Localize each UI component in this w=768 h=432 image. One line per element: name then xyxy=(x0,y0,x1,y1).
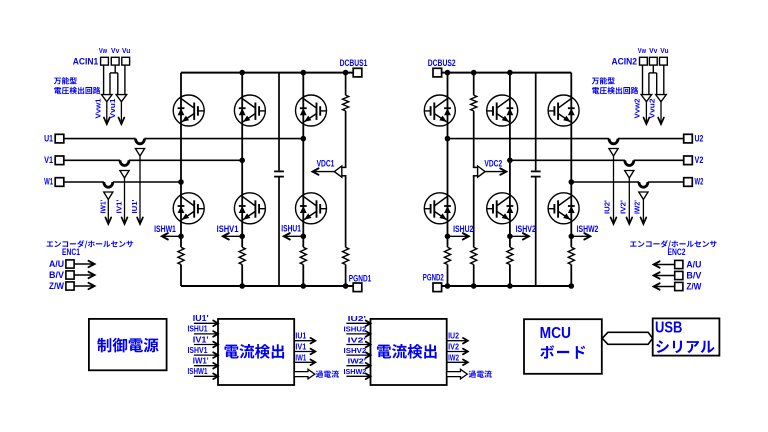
wire capacitor leg 2 bottom xyxy=(535,177,537,286)
transistor Q11 xyxy=(487,193,518,224)
node top bus leg V xyxy=(239,70,245,76)
terminal U2 xyxy=(684,134,693,143)
svg-text:IW2': IW2' xyxy=(348,359,367,366)
node bottom bus 2 leg U xyxy=(445,283,451,289)
tap triangle IU2' xyxy=(609,149,618,157)
node bottom bus 2 leg W corner xyxy=(569,283,575,289)
label current detect 2 xyxy=(377,344,437,359)
wire sense leg 1 xyxy=(345,73,347,168)
wire leg U1 phase xyxy=(302,73,304,248)
wire Vv drop 2 xyxy=(652,65,654,73)
arrow input IV1' xyxy=(194,344,218,346)
current sensor bump W1 xyxy=(104,182,113,187)
svg-text:W2: W2 xyxy=(695,177,704,187)
terminal ENC2 B/V xyxy=(675,271,683,279)
wire Vvu channel left side xyxy=(117,73,119,95)
arrow ISHV1 xyxy=(223,235,242,237)
transistor Q8 xyxy=(487,95,518,126)
arrow Vvw1 xyxy=(106,102,108,124)
node phase W1 junction xyxy=(178,179,184,185)
arrow input ISHW1 xyxy=(194,375,218,377)
svg-text:A/U: A/U xyxy=(49,259,64,269)
arrow ENC1 B/V xyxy=(74,274,94,276)
current sensor bump V2 xyxy=(625,160,634,165)
wire leg V2 xyxy=(509,73,511,248)
svg-text:IW2: IW2 xyxy=(448,353,459,362)
resistor divider bottom R1b xyxy=(344,247,347,264)
label board (katakana) xyxy=(540,345,585,359)
terminal ACIN2 Vv xyxy=(649,57,657,65)
arrow Vvu2 xyxy=(660,102,662,124)
node bottom bus leg V xyxy=(239,283,245,289)
svg-text:ISHV1: ISHV1 xyxy=(217,224,239,234)
wire bottom bus 1 / PGND rail xyxy=(181,285,353,287)
label current detect 1 xyxy=(225,344,285,359)
arrow ENC2 A/U xyxy=(654,264,675,266)
wire capacitor leg bottom xyxy=(278,177,280,286)
svg-text:B/V: B/V xyxy=(49,270,64,280)
arrow IU1' xyxy=(139,156,141,224)
svg-text:IW1': IW1' xyxy=(193,357,209,366)
arrow input IW1' xyxy=(194,365,218,367)
wire leg W1 phase xyxy=(180,73,182,248)
svg-text:IU2': IU2' xyxy=(605,200,612,214)
arrow input ISHW2 xyxy=(346,375,370,377)
connector MCU-USB double arrow xyxy=(602,332,652,344)
node phase W2 junction xyxy=(569,179,575,185)
svg-text:IV1': IV1' xyxy=(117,199,124,213)
arrow VDC2 xyxy=(485,171,506,173)
svg-text:V2: V2 xyxy=(695,155,704,165)
label universal voltage detect circuit 1 line1 xyxy=(54,77,77,84)
block control power supply xyxy=(89,319,167,370)
arrow IW1' xyxy=(107,200,109,225)
wire top DC bus 1 xyxy=(181,72,353,74)
transistor Q2 xyxy=(234,95,265,126)
terminal ENC2 A/U xyxy=(675,260,683,268)
node ISHU2 tap xyxy=(445,234,451,240)
svg-text:DCBUS2: DCBUS2 xyxy=(428,58,456,68)
svg-text:IW2': IW2' xyxy=(634,200,641,214)
svg-text:USB: USB xyxy=(655,319,682,336)
wire leg U2 xyxy=(447,73,449,248)
terminal ACIN1 Vv xyxy=(111,57,119,65)
arrow output IU1 xyxy=(294,340,315,342)
terminal ACIN1 Vw xyxy=(101,57,109,65)
resistor divider bottom R2b xyxy=(472,247,475,264)
node phase V2 junction xyxy=(507,158,513,164)
arrow IV2' xyxy=(628,178,630,224)
label serial (katakana) xyxy=(656,340,714,353)
label universal voltage detect circuit 2 line1 xyxy=(592,77,615,84)
wire phase V2 xyxy=(510,159,625,161)
svg-text:ACIN1: ACIN1 xyxy=(73,56,99,66)
node phase V1 junction xyxy=(239,158,245,164)
tap triangle IW1' xyxy=(104,192,113,200)
block current detect 1 xyxy=(218,319,294,385)
node ISHW2 tap xyxy=(569,234,575,240)
svg-text:IV2': IV2' xyxy=(348,337,367,344)
terminal PGND2 xyxy=(433,283,442,292)
svg-text:ISHV2: ISHV2 xyxy=(344,348,367,355)
tap triangle IW2' xyxy=(639,192,648,200)
tap triangle IV1' xyxy=(120,171,129,179)
arrow input IU2' xyxy=(346,322,370,324)
svg-text:ISHU2: ISHU2 xyxy=(344,327,367,334)
svg-text:IV1': IV1' xyxy=(193,335,209,344)
node bottom bus sense leg xyxy=(343,283,349,289)
wire phase U1 xyxy=(64,138,136,140)
arrow ENC1 A/U xyxy=(74,263,94,265)
svg-text:IU1': IU1' xyxy=(132,199,139,213)
arrow input IV2' xyxy=(346,344,370,346)
tap triangle IV2' xyxy=(625,171,634,179)
svg-text:Vu: Vu xyxy=(660,46,669,55)
wire leg V1 phase xyxy=(241,73,243,248)
arrow IW2' xyxy=(642,200,644,225)
tap triangle IU1' xyxy=(135,149,144,157)
terminal ACIN1 Vu xyxy=(122,57,130,65)
wire Vvu2 channel left side xyxy=(656,73,658,95)
arrow ISHU1 xyxy=(284,235,304,237)
node top bus 2 leg V xyxy=(507,70,513,76)
arrow output IW2 xyxy=(447,361,468,363)
svg-text:VDC2: VDC2 xyxy=(484,158,502,168)
transistor Q7 xyxy=(424,95,455,126)
arrow Vvu1 xyxy=(120,102,122,124)
probe triangle Vvw2 xyxy=(641,95,652,102)
label encoder hall sensor 1 xyxy=(47,240,134,248)
label overcurrent 2 xyxy=(469,370,492,377)
resistor shunt RSW2 xyxy=(570,247,573,264)
transistor Q6 xyxy=(296,193,327,224)
transistor Q1 xyxy=(173,95,204,126)
terminal ENC1 B/V xyxy=(66,271,74,279)
svg-text:U1: U1 xyxy=(44,133,53,143)
capacitor C2 xyxy=(531,170,541,172)
node top bus 2 sense leg xyxy=(471,70,477,76)
node bottom bus leg U xyxy=(301,283,307,289)
svg-text:W1: W1 xyxy=(44,177,53,187)
arrow output IW1 xyxy=(294,361,315,363)
resistor divider top R2a xyxy=(472,95,475,111)
svg-text:ENC2: ENC2 xyxy=(668,247,686,257)
svg-text:Vv: Vv xyxy=(649,46,658,55)
svg-text:Vvu1: Vvu1 xyxy=(110,98,117,118)
svg-text:Vu: Vu xyxy=(122,46,131,55)
capacitor C1 xyxy=(274,170,284,172)
wire Vv branch bar xyxy=(110,72,118,74)
svg-text:DCBUS1: DCBUS1 xyxy=(340,58,368,68)
svg-text:IW1: IW1 xyxy=(295,353,306,362)
svg-text:IW1': IW1' xyxy=(101,199,108,213)
arrow ISHW1 xyxy=(162,235,181,237)
current sensor bump V1 xyxy=(120,160,129,165)
arrow output IV2 xyxy=(447,351,468,353)
terminal DCBUS2 xyxy=(433,68,442,77)
terminal ENC1 A/U xyxy=(66,260,74,268)
wire capacitor leg top xyxy=(278,73,280,171)
probe triangle Vvu1 xyxy=(116,95,127,102)
svg-text:IV2: IV2 xyxy=(448,343,459,352)
svg-text:IV1: IV1 xyxy=(295,343,306,352)
wire Vu drop xyxy=(124,65,126,95)
resistor shunt RSV2 xyxy=(508,247,511,264)
arrow IV1' xyxy=(124,178,126,224)
terminal ACIN2 Vw xyxy=(640,57,648,65)
node ISHV2 tap xyxy=(507,234,513,240)
probe triangle Vvu2 xyxy=(656,95,667,102)
resistor shunt RSU2 xyxy=(446,247,449,264)
svg-text:IV2': IV2' xyxy=(620,200,627,214)
current sensor bump W2 xyxy=(639,182,648,187)
label universal voltage detect circuit 2 line2 xyxy=(592,87,638,94)
label encoder hall sensor 2 xyxy=(630,240,717,248)
transistor Q9 xyxy=(548,95,579,126)
arrow ISHW2 xyxy=(571,235,590,237)
svg-text:ISHW1: ISHW1 xyxy=(154,224,176,234)
transistor Q5 xyxy=(234,193,265,224)
arrow input IU1' xyxy=(194,322,218,324)
wire Vu drop 2 xyxy=(663,65,665,95)
arrow ISHU2 xyxy=(448,235,469,237)
label universal voltage detect circuit 1 line2 xyxy=(54,87,100,94)
svg-text:Vv: Vv xyxy=(111,46,120,55)
node bottom bus 2 sense leg xyxy=(471,283,477,289)
node phase U2 junction xyxy=(445,136,451,142)
svg-text:VDC1: VDC1 xyxy=(317,159,335,169)
probe VDC2 triangle xyxy=(473,166,478,168)
label overcurrent 1 xyxy=(316,370,339,377)
probe triangle Vvw1 xyxy=(102,95,113,102)
svg-text:ISHU1: ISHU1 xyxy=(188,325,208,334)
node ISHW1 tap xyxy=(178,234,184,240)
svg-text:ISHV2: ISHV2 xyxy=(516,224,536,234)
svg-text:ISHU2: ISHU2 xyxy=(453,224,473,234)
transistor Q10 xyxy=(424,193,455,224)
svg-text:ISHW2: ISHW2 xyxy=(577,224,599,234)
svg-text:V1: V1 xyxy=(44,155,53,165)
node top bus 2 leg U xyxy=(445,70,451,76)
wire Vv branch bar 2 xyxy=(649,72,657,74)
node bottom bus 2 leg V xyxy=(507,283,513,289)
label control power supply xyxy=(97,338,159,353)
arrow input ISHU2 xyxy=(346,333,370,335)
node top bus leg U xyxy=(301,70,307,76)
svg-text:IU2: IU2 xyxy=(448,332,459,341)
arrow input IW2' xyxy=(346,365,370,367)
wire Vw drop xyxy=(103,65,105,95)
arrow input ISHU1 xyxy=(194,333,218,335)
terminal V2 xyxy=(684,156,693,165)
arrow output IV1 xyxy=(294,351,315,353)
terminal W2 xyxy=(684,178,693,187)
resistor shunt RSU1 xyxy=(302,247,305,264)
wire leg W2 xyxy=(570,73,572,248)
arrow ENC2 B/V xyxy=(654,275,675,277)
svg-text:PGND2: PGND2 xyxy=(423,273,444,283)
wire Vvw2 channel right side xyxy=(648,73,650,95)
svg-text:B/V: B/V xyxy=(686,270,701,280)
svg-text:ACIN2: ACIN2 xyxy=(612,56,638,66)
svg-text:Vw: Vw xyxy=(638,46,646,55)
terminal DCBUS1 xyxy=(353,68,362,77)
block MCU board xyxy=(524,319,602,374)
arrow input ISHV1 xyxy=(194,354,218,356)
svg-text:ISHU1: ISHU1 xyxy=(281,223,301,233)
wire Vv drop xyxy=(114,65,116,73)
wire bottom bus 2 / PGND rail xyxy=(442,285,571,287)
wire Vw drop 2 xyxy=(642,65,644,95)
svg-text:ISHW2: ISHW2 xyxy=(344,369,367,376)
svg-text:Z/W: Z/W xyxy=(686,281,701,291)
terminal PGND1 xyxy=(353,283,362,292)
svg-text:ENC1: ENC1 xyxy=(62,247,80,257)
svg-text:A/U: A/U xyxy=(686,259,701,269)
terminal ENC1 Z/W xyxy=(66,282,74,290)
probe VDC1 triangle xyxy=(342,166,347,168)
resistor shunt RSV1 xyxy=(240,247,243,264)
wire phase U2 xyxy=(448,138,610,140)
arrow ENC2 Z/W xyxy=(654,286,675,288)
node ISHU1 tap xyxy=(301,234,307,240)
terminal ACIN2 Vu xyxy=(660,57,668,65)
svg-text:IU1': IU1' xyxy=(193,314,209,323)
svg-text:PGND1: PGND1 xyxy=(349,273,372,283)
node ISHV1 tap xyxy=(239,234,245,240)
resistor shunt RSW1 xyxy=(179,247,182,264)
terminal V1 xyxy=(55,156,64,165)
arrow ENC1 Z/W xyxy=(74,285,94,287)
arrow output IU2 xyxy=(447,340,468,342)
svg-text:Vw: Vw xyxy=(99,46,107,55)
svg-text:U2: U2 xyxy=(695,133,704,143)
terminal U1 xyxy=(55,134,64,143)
transistor Q4 xyxy=(173,193,204,224)
svg-text:Vvu2: Vvu2 xyxy=(650,98,657,118)
arrow input ISHV2 xyxy=(346,354,370,356)
svg-text:ISHW1: ISHW1 xyxy=(188,367,208,376)
wire top DC bus 2 xyxy=(442,72,572,74)
block current detect 2 xyxy=(371,319,447,385)
transistor Q12 xyxy=(548,193,579,224)
svg-text:ISHV1: ISHV1 xyxy=(188,346,208,355)
terminal W1 xyxy=(55,178,64,187)
current sensor bump U1 xyxy=(136,139,145,144)
arrow IU2' xyxy=(613,156,615,224)
svg-text:MCU: MCU xyxy=(540,325,571,342)
arrow ISHV2 xyxy=(510,235,529,237)
wire phase W1 xyxy=(64,181,104,183)
arrow overcurrent 1 (outline) xyxy=(294,369,315,379)
wire phase V1 xyxy=(64,159,121,161)
wire phase W2 xyxy=(571,181,639,183)
wire capacitor leg 2 top xyxy=(535,73,537,171)
current sensor bump U2 xyxy=(609,139,618,144)
svg-text:IU1: IU1 xyxy=(295,332,306,341)
svg-text:Vvw1: Vvw1 xyxy=(96,98,103,118)
node phase U1 junction xyxy=(301,136,307,142)
resistor divider top R1a xyxy=(344,95,347,111)
terminal ENC2 Z/W xyxy=(675,282,683,290)
transistor Q3 xyxy=(296,95,327,126)
node top bus sense leg xyxy=(343,70,349,76)
arrow overcurrent 2 (outline) xyxy=(447,369,468,379)
wire Vvw channel right side xyxy=(109,73,111,95)
svg-text:Vvw2: Vvw2 xyxy=(634,98,641,118)
wire sense leg 2 xyxy=(473,73,475,168)
svg-text:Z/W: Z/W xyxy=(49,281,64,291)
block USB serial xyxy=(653,318,720,355)
svg-text:IU2': IU2' xyxy=(348,316,367,323)
arrow Vvw2 xyxy=(645,102,647,124)
arrow VDC1 xyxy=(313,171,335,173)
